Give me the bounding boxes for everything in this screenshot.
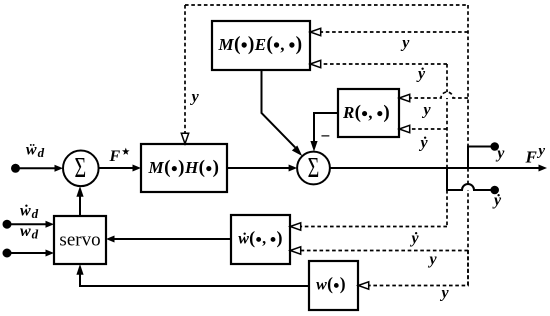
svg-text:ẏ: ẏ [492,192,502,209]
block U1 M(.)E(.,.) [212,21,310,70]
terminal wdot-d input dot [3,220,12,229]
terminal wddot2 input dot [11,164,20,173]
svg-text:y: y [440,285,450,302]
dashed wire y vertical right lower [467,168,469,286]
wire S2 to output Fy [330,165,547,172]
svg-text:R(•, •): R(•, •) [342,102,390,125]
svg-text:w(•): w(•) [316,274,346,296]
svg-text:ẇd: ẇd [20,203,39,222]
block U5 wdot(.,.) [231,215,290,264]
svg-text:ẇ(•, •): ẇ(•, •) [238,228,283,250]
dashed wire top horizontal [185,4,468,6]
svg-text:servo: servo [59,229,100,250]
block U3 M(.)H(.) [141,144,227,192]
dashed wire ydot into U1 lower [310,60,447,67]
svg-text:Σ: Σ [74,153,86,184]
dashed wire ydot vertical [446,64,448,168]
wire U6 to servo bottom [76,264,309,286]
label Fstar [109,148,130,165]
block U4 servo [54,216,106,264]
terminal ydot dot [490,186,499,195]
wire wdot-d to servo [7,221,54,228]
terminal y dot [490,142,499,151]
svg-text:y: y [190,89,200,106]
dashed wire y into U6 [358,251,468,290]
dashed wire y into U1 upper [310,28,468,35]
wire ydot pickoff with hop to terminal [447,168,492,190]
dashed wire ydot into U2 lower [399,125,447,132]
svg-text:F: F [109,148,121,165]
svg-text:ẏ: ẏ [416,66,426,83]
svg-text:Σ: Σ [308,153,320,184]
svg-text:wd: wd [20,223,39,242]
svg-text:y: y [428,251,438,268]
wire U5 to servo [106,236,231,243]
wire servo to S1 [76,186,83,216]
svg-text:y: y [422,102,432,119]
summing junction S2 [297,152,330,185]
dashed wire ydot vertical lower [446,190,448,227]
dashed wire y into U2 upper with hop [399,92,468,102]
wire U1 bottom to S2 diagonal [262,70,303,156]
svg-text:ẅd: ẅd [25,142,45,161]
dashed wire y into U5 lower [290,247,468,254]
svg-text:−: − [321,127,331,146]
wire wddot2 to S1 [16,165,64,172]
wire U3 to S2 [227,165,297,172]
svg-text:M(•)E(•, •): M(•)E(•, •) [218,34,303,57]
dashed wire y drop to U3 top [181,5,188,144]
svg-text:ẏ: ẏ [419,135,429,152]
block U2 R(.,.) [338,89,399,137]
svg-text:y: y [400,35,410,52]
summing junction S1 [63,151,99,187]
wire U2 to S2 minus input [310,113,338,152]
wire y pickoff to terminal [468,147,492,169]
wire wd to servo [7,250,54,257]
terminal wd input dot [3,249,12,258]
dashed wire y vertical right [467,5,469,146]
dashed wire ydot into U5 upper [290,223,447,230]
svg-text:M(•)H(•): M(•)H(•) [148,157,220,180]
svg-text:y: y [495,145,505,162]
wire S1 to U3 [99,165,142,172]
block U6 w(.) [309,261,358,310]
svg-text:ẏ: ẏ [410,230,420,247]
